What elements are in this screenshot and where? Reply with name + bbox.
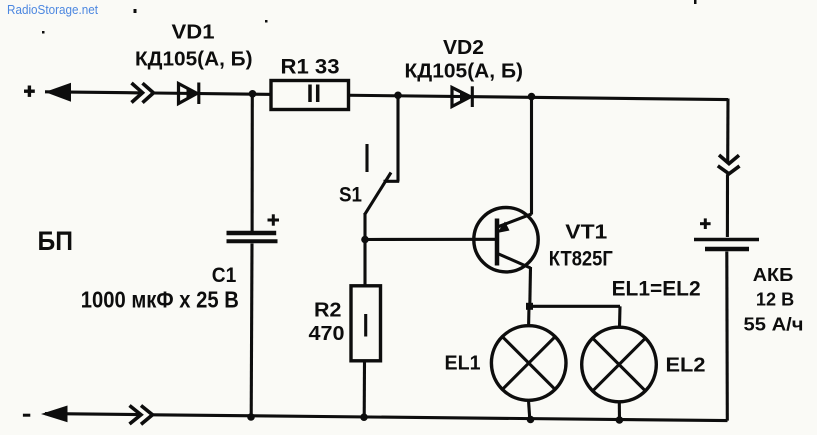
svg-text:АКБ: АКБ [753,264,794,285]
svg-text:EL1: EL1 [445,351,481,374]
svg-text:R1 33: R1 33 [281,56,340,79]
svg-text:БП: БП [38,226,74,256]
svg-text:EL1=EL2: EL1=EL2 [612,278,701,301]
svg-text:RadioStorage.net: RadioStorage.net [7,2,98,17]
svg-text:КД105(А, Б): КД105(А, Б) [405,61,524,83]
svg-text:КТ825Г: КТ825Г [549,247,613,271]
svg-text:1000 мкФ x 25 В: 1000 мкФ x 25 В [81,287,239,313]
svg-text:55 А/ч: 55 А/ч [744,314,804,335]
svg-text:EL2: EL2 [666,354,706,377]
svg-text:470: 470 [309,322,345,345]
svg-text:КД105(А, Б): КД105(А, Б) [135,49,253,71]
svg-text:VD2: VD2 [443,37,484,59]
svg-text:C1: C1 [212,263,237,287]
svg-text:VT1: VT1 [565,222,607,244]
svg-text:S1: S1 [339,184,362,207]
svg-text:12 В: 12 В [756,289,794,310]
svg-text:VD1: VD1 [172,22,215,44]
svg-text:R2: R2 [314,299,342,322]
